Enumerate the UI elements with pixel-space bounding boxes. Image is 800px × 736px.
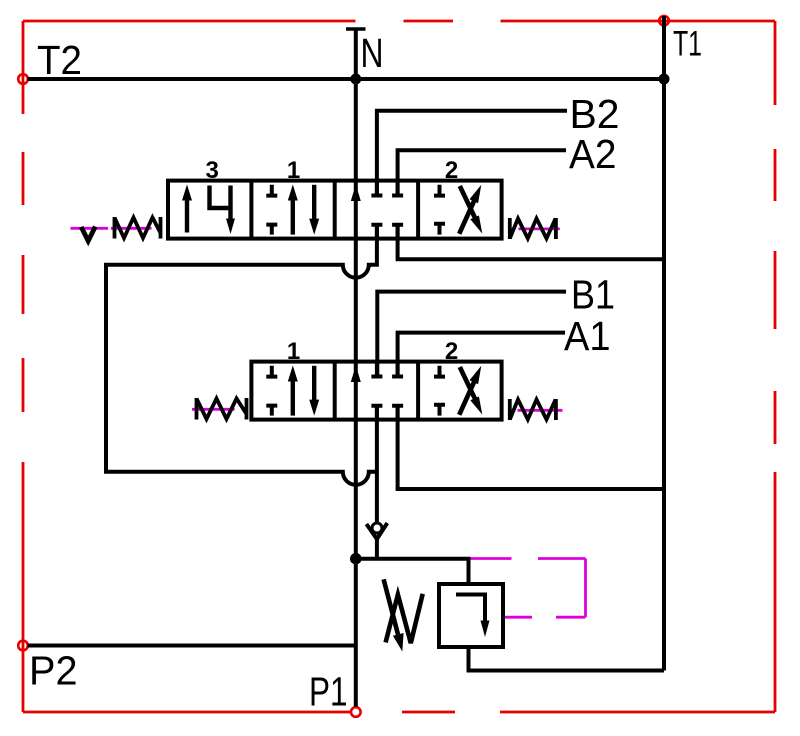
svg-text:N: N	[361, 30, 384, 76]
svg-text:B1: B1	[571, 272, 615, 318]
svg-text:1: 1	[287, 338, 300, 365]
svg-text:1: 1	[287, 157, 300, 184]
svg-text:T1: T1	[673, 25, 702, 64]
svg-text:2: 2	[445, 157, 458, 184]
svg-text:3: 3	[206, 157, 219, 184]
svg-text:A2: A2	[569, 131, 617, 177]
svg-text:A1: A1	[564, 313, 611, 359]
svg-text:T2: T2	[37, 37, 82, 83]
svg-text:P1: P1	[309, 669, 348, 715]
svg-text:P2: P2	[29, 648, 78, 694]
svg-text:2: 2	[445, 338, 458, 365]
